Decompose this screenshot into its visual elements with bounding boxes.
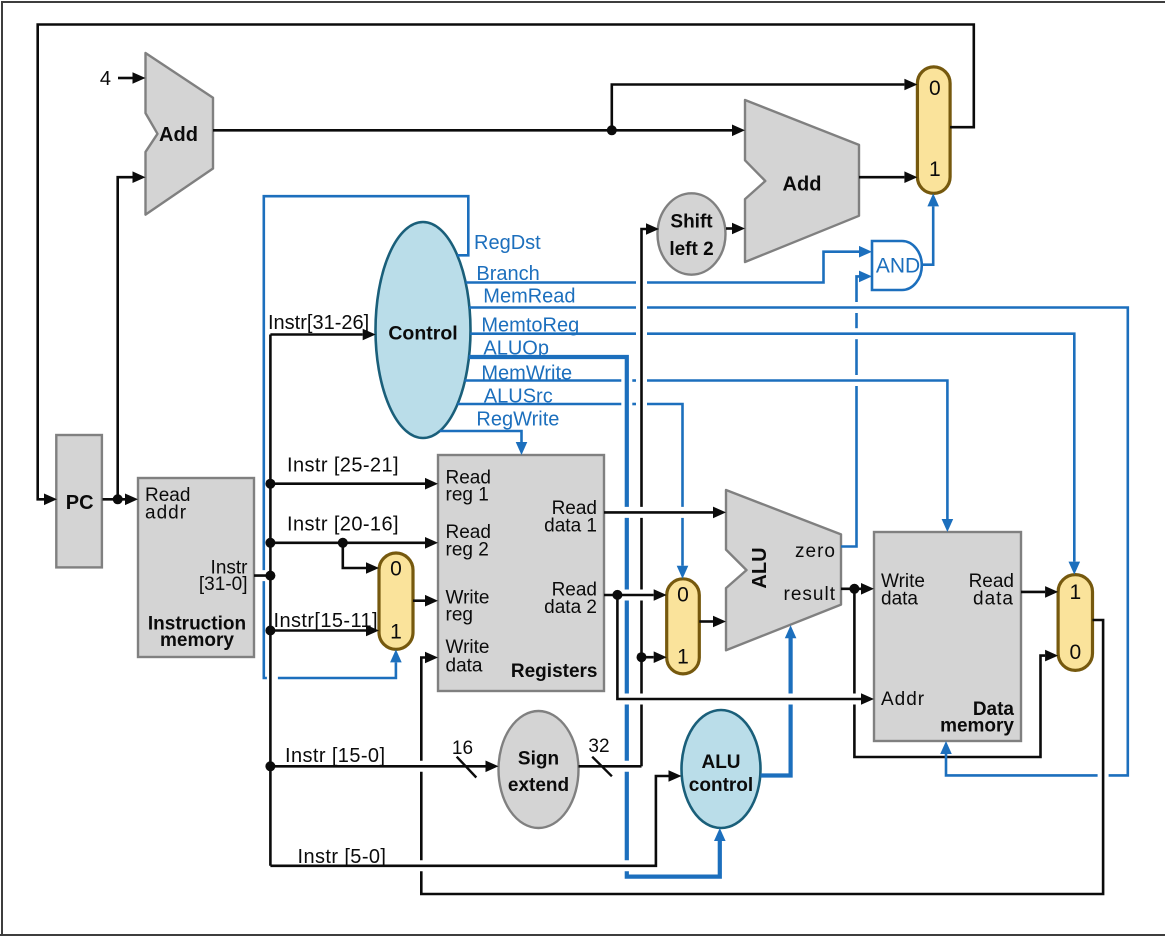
svg-text:Instr [25-21]: Instr [25-21] — [287, 455, 399, 477]
adder Add1 PC+4 — [146, 53, 214, 215]
wire ALU result down around to MemtoReg mux input 0 — [854, 589, 1058, 757]
mux RegDst (write register) — [379, 553, 413, 649]
junction Instr[31-0] — [265, 571, 275, 581]
wire read data 1 to ALU input 1 — [604, 507, 726, 519]
svg-text:ALUSrc: ALUSrc — [484, 386, 553, 408]
wire shift left 2 output to Add2 bottom input — [726, 223, 745, 235]
wire read data 2 to ALUSrc mux input 0 — [604, 589, 667, 601]
svg-text:Branch: Branch — [476, 263, 539, 285]
wire MemtoReg signal to MemtoReg mux select — [470, 315, 1080, 575]
svg-text:AND: AND — [876, 255, 920, 278]
svg-text:0: 0 — [390, 558, 402, 581]
svg-text:data: data — [973, 589, 1014, 610]
ALU — [726, 490, 841, 650]
svg-text:MemWrite: MemWrite — [481, 363, 572, 385]
svg-text:16: 16 — [452, 738, 473, 759]
svg-text:data: data — [881, 589, 918, 610]
wire RegDst mux output to write register — [413, 595, 438, 607]
wire Instr [25-21] to read register 1 — [270, 455, 438, 490]
wire Instr [5-0] to ALU control — [270, 770, 681, 868]
svg-text:ALU: ALU — [749, 547, 771, 588]
wire ALUOp signal to ALU control (thick) — [469, 338, 726, 877]
wire Branch signal to AND gate — [466, 246, 872, 285]
svg-text:0: 0 — [1069, 641, 1081, 664]
svg-text:control: control — [689, 775, 753, 796]
junction Instr[15-11] — [265, 626, 275, 636]
svg-text:extend: extend — [508, 775, 569, 796]
svg-text:Instr[31-26]: Instr[31-26] — [268, 312, 369, 334]
svg-text:1: 1 — [1069, 581, 1081, 604]
wire read data 2 down to data memory address — [617, 595, 874, 705]
wire AND gate output to PCSrc mux select — [922, 193, 940, 264]
wire RegDst signal to RegDst mux select — [264, 196, 541, 678]
svg-text:4: 4 — [100, 68, 111, 90]
svg-text:1: 1 — [677, 646, 689, 669]
svg-text:RegDst: RegDst — [474, 232, 541, 254]
wire ALUSrc mux output to ALU input 2 — [699, 616, 726, 628]
wire ALUSrc signal to ALUSrc mux select — [457, 386, 688, 579]
wire Instr[31-26] to control — [268, 312, 376, 340]
wire data memory read data to MemtoReg mux input 1 — [1021, 586, 1058, 598]
wire Instr [20-16] to read register 2 — [270, 514, 438, 549]
junction Instr[15-0] tap — [265, 761, 275, 771]
wire sign-extend bus to ALUSrc mux input 1 — [642, 651, 667, 663]
instruction memory — [138, 478, 254, 657]
svg-text:memory: memory — [940, 716, 1014, 737]
wire Instr[20-16] down to RegDst mux input 0 — [343, 543, 379, 574]
svg-text:addr: addr — [145, 503, 187, 524]
instruction bus vertical Instr[31-0] — [269, 335, 272, 866]
junction ALU result — [849, 584, 859, 594]
adder Add2 branch target — [745, 100, 859, 262]
wire Add2 result to PCSrc mux input 1 — [859, 171, 917, 183]
junction PC output — [113, 494, 123, 504]
junction read data 2 — [612, 590, 622, 600]
control unit U-Control — [376, 222, 471, 438]
wire PC+4 to PCSrc mux input 0 — [612, 79, 918, 131]
junction Instr[25-21] — [265, 479, 275, 489]
wire PC to instruction memory read address — [103, 494, 139, 506]
mux PCSrc — [917, 67, 950, 193]
svg-text:reg: reg — [446, 605, 473, 626]
svg-text:Add: Add — [159, 124, 198, 146]
wire PC output up to Add1 — [118, 171, 146, 499]
wire RegWrite signal to registers write enable — [440, 409, 560, 456]
sign extend unit — [499, 711, 579, 828]
svg-text:Instr [20-16]: Instr [20-16] — [287, 514, 399, 536]
constant 4 input to Add1 — [100, 68, 146, 90]
svg-text:MemtoReg: MemtoReg — [481, 315, 579, 337]
svg-text:Instr[15-11]: Instr[15-11] — [274, 610, 378, 632]
svg-text:data 1: data 1 — [544, 516, 597, 537]
svg-text:Instr [5-0]: Instr [5-0] — [298, 846, 387, 868]
svg-text:Instr [15-0]: Instr [15-0] — [285, 745, 385, 767]
wire Add1 result to Add2 top input — [213, 125, 745, 137]
svg-text:1: 1 — [390, 620, 402, 643]
svg-text:Sign: Sign — [518, 749, 559, 770]
wire MemRead signal to data memory — [469, 286, 1128, 776]
AND gate (branch) — [872, 241, 922, 290]
svg-text:data: data — [446, 656, 483, 677]
wire ALU control output to ALU (thick) — [761, 625, 797, 775]
wire MemtoReg mux output back to registers write data — [421, 620, 1103, 894]
svg-text:32: 32 — [588, 736, 609, 757]
svg-text:PC: PC — [66, 492, 94, 514]
wire ALU zero flag to AND gate — [841, 271, 872, 547]
svg-text:MemRead: MemRead — [483, 286, 575, 308]
svg-text:zero: zero — [795, 541, 836, 562]
svg-text:data 2: data 2 — [544, 597, 597, 618]
svg-text:left 2: left 2 — [669, 239, 713, 260]
svg-text:ALU: ALU — [701, 752, 740, 773]
wire ALU result to data memory write data — [841, 583, 874, 595]
svg-text:0: 0 — [677, 584, 689, 607]
mux ALUSrc — [667, 579, 700, 674]
data memory — [874, 532, 1021, 741]
junction Instr[20-16] — [265, 538, 275, 548]
registers file — [438, 455, 604, 691]
junction Instr[20-16] mux tap — [338, 538, 348, 548]
wire instruction memory output Instr[31-0] — [254, 574, 270, 577]
wire Instr[15-11] to RegDst mux input 1 — [270, 610, 379, 636]
svg-text:reg 1: reg 1 — [446, 485, 489, 506]
shift left 2 unit — [658, 193, 726, 274]
svg-text:Control: Control — [388, 323, 457, 345]
svg-text:Add: Add — [783, 174, 822, 196]
wire sign extend output (32 bits) — [579, 736, 642, 776]
ALU control unit — [682, 710, 761, 828]
svg-text:RegWrite: RegWrite — [476, 409, 559, 431]
svg-text:Addr: Addr — [881, 689, 925, 710]
svg-text:Shift: Shift — [670, 212, 713, 233]
svg-text:1: 1 — [929, 158, 941, 181]
wire PCSrc mux output to PC (top loop) — [38, 25, 974, 506]
svg-text:ALUOp: ALUOp — [483, 338, 549, 360]
svg-text:reg 2: reg 2 — [446, 540, 489, 561]
wire sign-extend bus up to shift left 2 (vertical) — [642, 223, 660, 766]
junction Add1 result — [607, 125, 617, 135]
wire MemWrite signal to data memory write enable — [465, 363, 954, 533]
junction sign-extend bus to ALUSrc mux 1 — [637, 652, 647, 662]
svg-text:result: result — [784, 584, 836, 605]
svg-text:memory: memory — [160, 630, 234, 651]
svg-text:Registers: Registers — [511, 661, 598, 682]
mux MemtoReg — [1058, 575, 1092, 671]
svg-text:[31-0]: [31-0] — [199, 574, 248, 595]
svg-text:0: 0 — [929, 77, 941, 100]
wire Instr [15-0] to sign extend (16 bits) — [270, 738, 498, 778]
PC register — [56, 435, 102, 567]
